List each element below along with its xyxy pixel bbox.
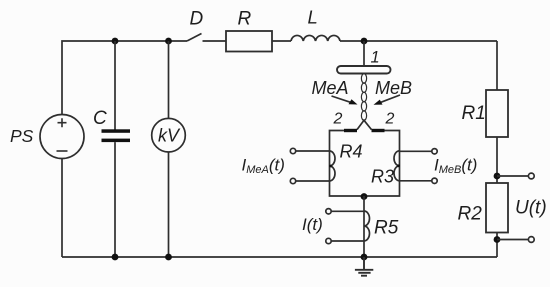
svg-text:R1: R1 bbox=[462, 103, 486, 124]
PS plus sign bbox=[58, 118, 67, 127]
terminal circle I(t) top bbox=[326, 209, 331, 214]
wire V split to contacts bbox=[357, 120, 372, 129]
terminal circle IMeA bottom bbox=[290, 178, 295, 183]
wire R to L bbox=[272, 40, 291, 42]
svg-text:2: 2 bbox=[385, 111, 395, 128]
svg-text:U(t): U(t) bbox=[515, 198, 547, 219]
inductor L bbox=[291, 35, 340, 41]
wire electrode drop bbox=[363, 41, 365, 66]
wire box bottom to rail bbox=[363, 196, 365, 257]
terminal circle I(t) bottom bbox=[326, 238, 331, 243]
resistor R2 bbox=[486, 183, 508, 233]
terminal wires IMeB bbox=[400, 150, 433, 152]
wire right edge bbox=[496, 41, 498, 90]
node junction top rail at electrode bbox=[361, 38, 368, 45]
wire top rail left segment bbox=[62, 41, 187, 115]
resistor R1 bbox=[486, 90, 508, 137]
svg-text:MeB: MeB bbox=[375, 78, 412, 98]
svg-text:C: C bbox=[93, 108, 107, 129]
winding R4 bbox=[330, 151, 336, 181]
svg-text:D: D bbox=[190, 9, 204, 30]
capacitor C plates bbox=[102, 129, 131, 142]
wire R2 to bottom rail bbox=[496, 233, 498, 258]
terminal circle IMeA top bbox=[290, 148, 295, 153]
terminal wire U(t) bottom bbox=[497, 239, 529, 241]
wire C top bbox=[114, 41, 116, 130]
terminal circle U(t) bottom bbox=[528, 237, 534, 243]
svg-text:IMeA(t): IMeA(t) bbox=[242, 156, 285, 177]
svg-text:MeA: MeA bbox=[312, 78, 349, 98]
node U(t) bottom bbox=[494, 236, 501, 243]
svg-text:IMeB(t): IMeB(t) bbox=[434, 156, 477, 177]
wire C bottom bbox=[114, 142, 116, 257]
svg-text:R2: R2 bbox=[458, 204, 483, 225]
twisted measuring element MeA/MeB bbox=[361, 74, 366, 121]
terminal circle U(t) top bbox=[528, 173, 534, 179]
measuring box outline bbox=[330, 131, 400, 197]
node box bottom bbox=[361, 193, 368, 200]
node bottom rail at ground bbox=[361, 254, 368, 261]
contact pad 2 right bbox=[372, 129, 385, 132]
node bottom rail at kV bbox=[165, 254, 172, 261]
resistor R bbox=[226, 31, 272, 52]
node U(t) top bbox=[494, 173, 501, 180]
svg-text:I(t): I(t) bbox=[302, 215, 323, 234]
switch D blade bbox=[187, 34, 202, 42]
wire R1 to R2 bbox=[496, 137, 498, 183]
terminal circle IMeB top bbox=[432, 149, 437, 154]
wire switch to R bbox=[203, 40, 227, 42]
terminal circle IMeB bottom bbox=[432, 178, 437, 183]
node junction top rail at kV / switch bbox=[165, 38, 172, 45]
terminal wires IMeA bbox=[296, 150, 330, 152]
electrode plate 1 bbox=[337, 66, 391, 74]
contact pad 2 left bbox=[344, 129, 357, 132]
svg-text:R5: R5 bbox=[374, 218, 399, 239]
terminal wire U(t) top bbox=[497, 175, 529, 177]
meter kV bbox=[152, 118, 186, 152]
PS minus sign bbox=[57, 150, 68, 152]
source PS circle bbox=[40, 115, 84, 159]
terminal wires I(t) bbox=[331, 210, 364, 212]
svg-text:2: 2 bbox=[333, 111, 343, 128]
node bottom rail at C bbox=[112, 254, 119, 261]
ground bbox=[355, 257, 373, 276]
wire PS bottom bbox=[61, 159, 63, 258]
svg-text:PS: PS bbox=[10, 126, 34, 146]
svg-text:R: R bbox=[238, 9, 252, 30]
svg-text:R4: R4 bbox=[340, 142, 363, 162]
arrow MeA bbox=[332, 96, 358, 105]
winding R5 bbox=[364, 211, 370, 241]
arrow MeB bbox=[374, 95, 401, 105]
svg-text:kV: kV bbox=[158, 126, 181, 146]
svg-text:L: L bbox=[308, 7, 318, 28]
winding R3 bbox=[394, 151, 399, 181]
svg-text:1: 1 bbox=[371, 49, 380, 67]
wire L to right corner bbox=[340, 40, 497, 42]
node junction top rail at C bbox=[112, 38, 119, 45]
wire kV top bbox=[168, 41, 170, 118]
wire kV bottom bbox=[168, 152, 170, 257]
bottom rail bbox=[62, 256, 497, 258]
svg-text:R3: R3 bbox=[371, 167, 394, 187]
